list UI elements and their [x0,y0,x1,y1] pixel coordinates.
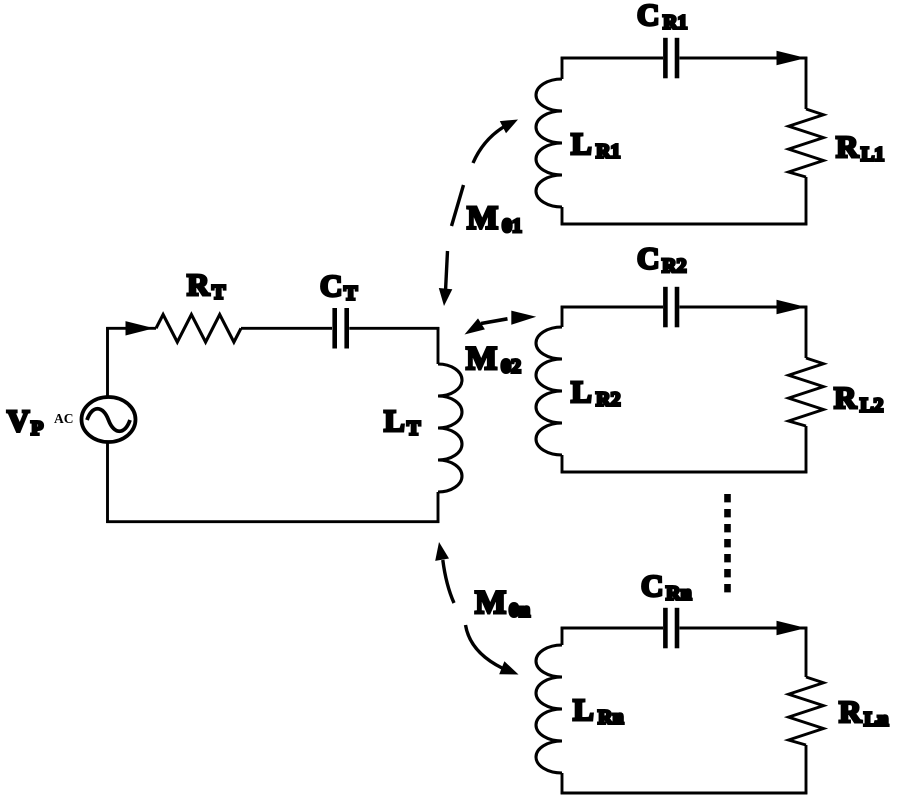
resistor R_L1 [789,109,824,177]
wire: receiver1 left vertical above coil [561,57,564,79]
wire: transmitter right vertical below coil [437,492,440,523]
inductor L_R2 [536,327,562,455]
wire: receiver-n left vertical below coil [561,773,564,794]
capacitor C_R2 [665,287,677,328]
wire: receiver1 top wire, left segment [561,57,663,60]
svg-text:Rn: Rn [598,706,624,728]
wire: transmitter right vertical above coil [437,327,440,364]
wire: receiver-n top wire, left segment [561,627,663,630]
svg-text:L1: L1 [861,143,884,165]
svg-text:V: V [7,403,30,438]
mutual coupling arrow M0n, lower dash with down-right head [466,625,503,668]
wire: receiver-n left vertical above coil [561,627,564,645]
svg-text:R2: R2 [596,388,620,410]
svg-text:R: R [839,694,862,729]
wire: receiver1 bottom wire [561,223,808,226]
wire: receiver2 bottom wire [561,471,808,474]
svg-text:R: R [836,129,859,164]
mutual coupling arrow M01, middle dash [452,185,464,226]
svg-text:02: 02 [501,356,521,378]
svg-text:L: L [571,374,592,409]
svg-text:01: 01 [502,215,522,237]
wire: receiver1 right vertical below resistor [805,177,808,225]
capacitor C_R1 [665,38,677,79]
wire: receiver-n right vertical below resistor [805,745,808,794]
mutual coupling arrow M0n, upper dash with up head [443,560,454,603]
svg-text:R: R [187,267,210,302]
svg-text:L2: L2 [860,394,883,416]
svg-text:Rn: Rn [666,582,692,604]
svg-text:M: M [467,201,498,237]
svg-text:Ln: Ln [864,708,888,730]
resistor R_L2 [789,358,824,426]
capacitor C_Rn [665,608,677,649]
svg-text:C: C [320,268,342,303]
current arrow on receiver2 top wire [777,300,807,314]
wire: transmitter top wire, resistor to capacitor [241,327,332,330]
current arrow on transmitter top wire [126,321,155,335]
wire: receiver1 top wire, right segment [680,57,808,60]
wire: receiver1 right vertical above resistor [805,57,808,109]
svg-text:L: L [573,692,594,727]
wire: receiver2 left vertical above coil [561,306,564,327]
dotted continuation line between receiver 2 and receiver n [724,494,731,594]
svg-text:L: L [571,126,592,161]
svg-text:R: R [834,380,857,415]
wire: receiver-n right vertical above resistor [805,627,808,677]
AC source V_P [82,397,136,442]
inductor L_T [438,364,462,492]
wire: transmitter top wire, capacitor to right corner [349,327,439,330]
wire: receiver2 top wire, right segment [680,306,808,309]
inductor L_Rn [536,645,562,773]
wire: receiver2 top wire, left segment [561,306,663,309]
current arrow on receiver-n top wire [777,621,807,635]
current arrow on receiver1 top wire [777,51,807,65]
svg-text:M: M [475,585,506,621]
mutual coupling arrow M02, right dash with right head [511,311,536,325]
svg-text:T: T [407,417,421,439]
svg-text:L: L [384,403,405,438]
mutual coupling arrow M01, lower dash with down head [446,251,448,289]
svg-text:C: C [637,241,659,276]
wire: receiver1 left vertical below coil [561,207,564,225]
wire: receiver-n top wire, right segment [680,627,808,630]
svg-text:C: C [637,0,659,32]
svg-text:M: M [466,341,497,377]
inductor L_R1 [536,79,562,207]
resistor R_T [156,315,241,343]
wire: receiver2 left vertical below coil [561,455,564,473]
svg-text:T: T [344,282,358,304]
svg-text:C: C [641,568,663,603]
svg-text:R1: R1 [663,11,687,33]
svg-text:0n: 0n [509,600,530,622]
mutual coupling arrow M01, upper dash with head [473,127,504,163]
wire: receiver2 right vertical below resistor [805,426,808,473]
svg-text:T: T [212,281,226,303]
wire: receiver2 right vertical above resistor [805,306,808,358]
wire: receiver-n bottom wire [561,792,808,795]
wire: transmitter bottom wire [106,520,439,523]
svg-text:P: P [31,417,43,439]
wire: transmitter top-left vertical (above AC source) [106,327,109,398]
svg-text:R1: R1 [596,140,620,162]
wire: transmitter top wire, source to resistor [106,327,156,330]
capacitor C_T [335,308,347,349]
mutual coupling arrow M02, left dash with down-left head [481,319,508,324]
svg-text:R2: R2 [662,255,686,277]
resistor R_Ln [789,677,824,745]
wire: transmitter left vertical (below AC source) [106,441,109,523]
svg-text:AC: AC [54,411,74,426]
